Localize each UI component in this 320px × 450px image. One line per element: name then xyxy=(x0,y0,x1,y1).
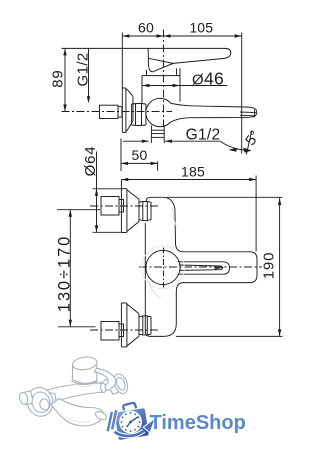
svg-text:TimeShop: TimeShop xyxy=(150,412,246,434)
svg-text:G1/2: G1/2 xyxy=(74,52,91,86)
svg-text:G1/2: G1/2 xyxy=(186,127,221,144)
svg-text:105: 105 xyxy=(189,19,213,35)
svg-text:89: 89 xyxy=(49,69,66,87)
svg-text:Ø64: Ø64 xyxy=(82,146,99,177)
svg-text:5°: 5° xyxy=(243,128,264,149)
svg-text:60: 60 xyxy=(138,19,154,35)
svg-text:130÷170: 130÷170 xyxy=(56,235,74,312)
svg-text:50: 50 xyxy=(132,147,148,163)
svg-text:185: 185 xyxy=(181,164,205,180)
svg-text:190: 190 xyxy=(260,252,277,279)
svg-text:Ø46: Ø46 xyxy=(192,68,224,88)
